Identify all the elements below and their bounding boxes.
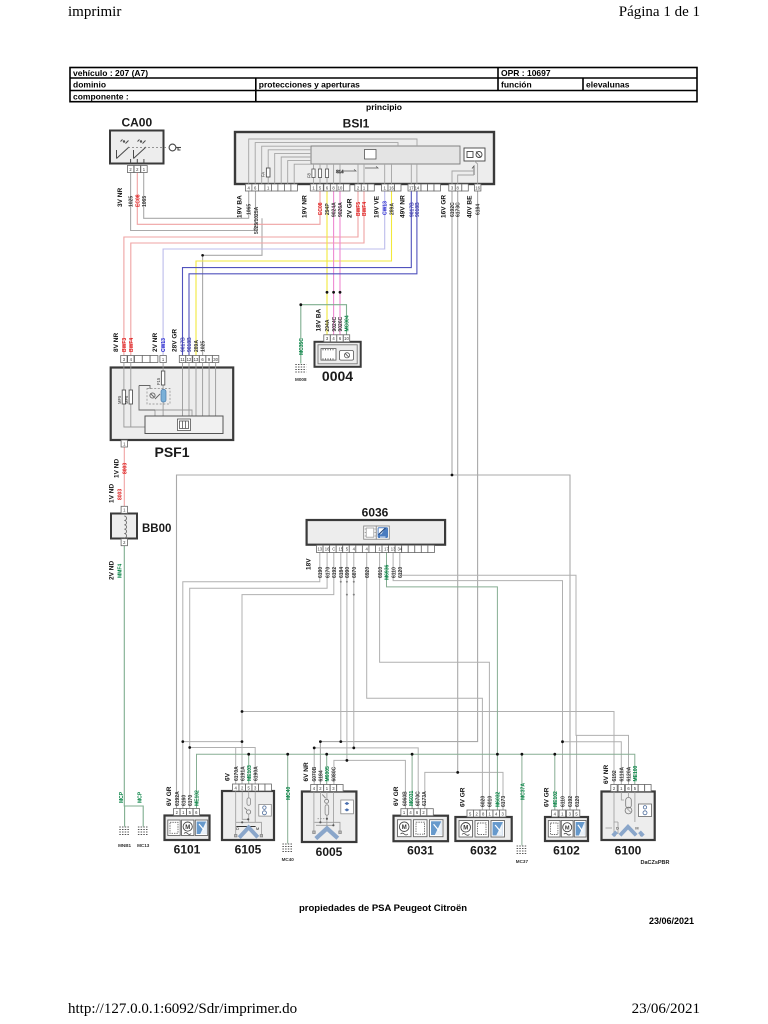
svg-text:6870: 6870 bbox=[352, 567, 358, 578]
6031 door icon bbox=[414, 820, 428, 837]
node 6070B bbox=[313, 747, 316, 750]
svg-text:M: M bbox=[463, 826, 468, 832]
wire 6110 (gray) 6036 to 6102/6100 bbox=[393, 553, 621, 785]
node 6990 bbox=[346, 759, 349, 762]
ecu BSI1 body bbox=[235, 132, 494, 184]
svg-text:componente :: componente : bbox=[73, 92, 129, 102]
PSF1 blue element bbox=[161, 390, 166, 403]
svg-text:6173C: 6173C bbox=[456, 202, 462, 217]
6005 body bbox=[302, 792, 357, 843]
wire 6192 link to 6100 bbox=[242, 712, 614, 785]
PSF1 relay sub box (dashed) bbox=[147, 389, 170, 405]
fuse F15 bbox=[161, 371, 164, 385]
node 6192/6105 bbox=[241, 740, 244, 743]
svg-text:6032: 6032 bbox=[470, 844, 497, 858]
svg-text:ME103: ME103 bbox=[247, 765, 253, 781]
6031 window icon bbox=[430, 820, 444, 837]
svg-text:F8: F8 bbox=[307, 172, 312, 178]
svg-text:9018B: 9018B bbox=[415, 202, 421, 217]
6102 pins 4,1,3,5 bbox=[552, 810, 580, 817]
wire 6170 stub to 6101 pin5 bbox=[189, 748, 191, 809]
wire 6990 (gray) 6036 to 6005/6031 bbox=[346, 553, 348, 761]
svg-text:6192: 6192 bbox=[612, 770, 618, 781]
splice 9024 bbox=[332, 291, 335, 294]
node 6170 bbox=[188, 746, 191, 749]
6100 rocker chevron bbox=[620, 827, 636, 836]
6036 pin numbers bbox=[317, 547, 402, 552]
wire MMF4 (green) BB00 to grounds MNB1/MC13 bbox=[124, 546, 143, 827]
wire 9017B (navy) BSI1 to PSF1 bbox=[183, 191, 412, 356]
6101 pins 2,1,5,6 bbox=[174, 809, 200, 816]
BSI1 connector icon top right bbox=[464, 148, 485, 161]
svg-text:2V ND: 2V ND bbox=[109, 561, 116, 580]
6100 pins 2,1,3,5 bbox=[611, 785, 651, 792]
svg-text:17: 17 bbox=[384, 547, 389, 552]
svg-text:13: 13 bbox=[317, 547, 322, 552]
svg-text:ME102: ME102 bbox=[553, 791, 559, 807]
svg-text:13: 13 bbox=[194, 357, 199, 362]
svg-text:23/06/2021: 23/06/2021 bbox=[649, 916, 694, 926]
node 6192C bus bbox=[451, 474, 454, 477]
svg-text:6101: 6101 bbox=[174, 843, 201, 857]
node 6184/6005 bbox=[319, 740, 322, 743]
node 6110/6102 bbox=[561, 740, 564, 743]
PSF1 body bbox=[111, 368, 234, 441]
svg-text:M: M bbox=[185, 825, 190, 831]
svg-text:ME100: ME100 bbox=[633, 765, 639, 781]
BSI1 pin row: 19V BA group bbox=[245, 184, 297, 191]
6102 motor icon bbox=[561, 821, 573, 838]
svg-text:M6031: M6031 bbox=[409, 790, 415, 806]
6105 contact bar bbox=[236, 826, 255, 828]
svg-text:6020: 6020 bbox=[481, 796, 487, 807]
svg-text:6V GR: 6V GR bbox=[459, 787, 466, 807]
svg-text:13: 13 bbox=[391, 547, 396, 552]
node 1025/PSF1 bbox=[201, 254, 204, 257]
svg-text:9024C: 9024C bbox=[332, 316, 338, 331]
node 6173C bbox=[456, 771, 459, 774]
svg-text:6990: 6990 bbox=[345, 567, 351, 578]
svg-text:6192: 6192 bbox=[332, 567, 338, 578]
wire 6120 stub to 6102 bbox=[576, 735, 578, 810]
svg-text:6005: 6005 bbox=[316, 845, 343, 859]
svg-text:propiedades de PSA Peugeot Cit: propiedades de PSA Peugeot Citroën bbox=[299, 903, 467, 914]
svg-text:principio: principio bbox=[366, 102, 402, 112]
wire 5025/1025A (gray) BSI1 branch to PSF1 pin 1025 bbox=[203, 219, 262, 356]
wire 6173C (gray) BSI1 down to 6173 link bbox=[457, 191, 459, 772]
svg-text:ME102: ME102 bbox=[195, 790, 201, 806]
wire 9024A/9024C (pink) BSI1 to 0004 bbox=[333, 191, 335, 335]
header table bbox=[70, 68, 697, 102]
svg-text:14: 14 bbox=[415, 185, 420, 190]
PSF1 connector icon bbox=[178, 419, 191, 431]
svg-text:M: M bbox=[565, 825, 570, 831]
PSF1 wire labels bbox=[122, 337, 207, 352]
6102 body bbox=[545, 817, 588, 841]
PSF1 28V GR pins bbox=[179, 356, 218, 363]
svg-text:6190A: 6190A bbox=[253, 766, 259, 781]
svg-text:19V BA: 19V BA bbox=[237, 195, 244, 218]
wire 6920 (gray) 6036 to 6032 pin 6020 bbox=[367, 553, 483, 810]
svg-text:S14: S14 bbox=[336, 169, 344, 174]
svg-text:6170: 6170 bbox=[188, 795, 194, 806]
svg-text:6173: 6173 bbox=[501, 796, 507, 807]
svg-text:0004: 0004 bbox=[322, 368, 353, 384]
0004 right icon bbox=[340, 351, 354, 361]
wire supply bus y=475 (gray) bbox=[177, 475, 571, 810]
svg-text:16: 16 bbox=[475, 185, 480, 190]
svg-text:protecciones y aperturas: protecciones y aperturas bbox=[259, 80, 360, 90]
green tap 6005 M6005 bbox=[326, 754, 328, 784]
BSI1 chip icon bbox=[365, 150, 377, 160]
6036 body bbox=[307, 520, 446, 545]
wire 6110 stub to 6102 bbox=[562, 742, 564, 810]
svg-text:19V NR: 19V NR bbox=[302, 195, 309, 218]
svg-text:M6005: M6005 bbox=[325, 766, 331, 782]
svg-text:30: 30 bbox=[213, 357, 218, 362]
wire 8003 (red) PSF1 bottom pin to BB00 bbox=[123, 448, 125, 507]
svg-text:6036: 6036 bbox=[362, 506, 389, 520]
node 6870 bbox=[352, 747, 355, 750]
wire BWF5 (red) BSI1 to PSF1 pin3 bbox=[124, 191, 358, 356]
svg-text:19V VE: 19V VE bbox=[374, 195, 381, 218]
svg-text:MC37: MC37 bbox=[516, 859, 529, 864]
svg-text:6110A: 6110A bbox=[620, 767, 626, 782]
6036 wire labels bbox=[318, 564, 404, 580]
svg-text:9018B: 9018B bbox=[187, 337, 193, 352]
green tap 6105 ME103 bbox=[248, 754, 250, 784]
svg-text:dominio: dominio bbox=[73, 80, 106, 90]
6102 window icon bbox=[574, 821, 586, 838]
svg-text:17: 17 bbox=[409, 185, 414, 190]
svg-text:49V NR: 49V NR bbox=[400, 195, 407, 218]
BSI1 arrow below connector bbox=[472, 166, 474, 175]
6005 pins 4,2,1,3 bbox=[311, 785, 343, 792]
wire 1065 (gray) CA00 pin1 to BSI1 bbox=[144, 173, 249, 219]
PSF1 pin 1 (2V NR) bbox=[160, 356, 166, 363]
6105 pins 4,2,5,3 bbox=[233, 784, 272, 791]
BB00 coil symbol bbox=[124, 516, 126, 538]
key symbol bbox=[169, 144, 181, 151]
svg-text:6080C: 6080C bbox=[332, 766, 338, 781]
svg-text:MF5: MF5 bbox=[117, 395, 122, 404]
6105 rocker chevron bbox=[239, 827, 258, 837]
svg-text:1065: 1065 bbox=[142, 196, 148, 207]
BB00 top pin bbox=[121, 506, 127, 513]
svg-text:6192: 6192 bbox=[568, 796, 574, 807]
svg-text:CW13: CW13 bbox=[161, 338, 167, 352]
BSI1 pin row: 2V GR group bbox=[355, 184, 368, 191]
svg-text:D: D bbox=[616, 827, 619, 831]
svg-text:16: 16 bbox=[325, 547, 330, 552]
svg-text:elevalunas: elevalunas bbox=[586, 80, 630, 90]
svg-text:BSI1: BSI1 bbox=[343, 117, 370, 131]
node 6192 to 6100 bbox=[241, 710, 244, 713]
BSI1 pin row: 49V NR group bbox=[408, 184, 421, 191]
svg-text:10: 10 bbox=[338, 185, 343, 190]
wire 6184 (gray) BSI1 to 6005 bbox=[320, 191, 477, 785]
svg-text:6173A: 6173A bbox=[422, 791, 428, 806]
svg-text:5025/1025A: 5025/1025A bbox=[254, 206, 260, 234]
fuse MF6 bbox=[129, 390, 132, 404]
6036 window lift icon (blue) bbox=[376, 526, 389, 539]
BSI1 pin row: 19V VE group bbox=[382, 184, 395, 191]
nodes on green bus bbox=[247, 753, 250, 756]
svg-text:MC004: MC004 bbox=[345, 315, 351, 331]
6100 internals bbox=[606, 792, 643, 836]
svg-text:9026A: 9026A bbox=[338, 202, 344, 217]
green tap 6102 ME102 bbox=[554, 754, 556, 810]
svg-text:6184: 6184 bbox=[476, 204, 482, 215]
wire 6170 (gray) 6036 to 6101/6105 bbox=[190, 553, 327, 784]
BSI1 internal arrow S14 bbox=[336, 166, 378, 174]
6032 window icon bbox=[491, 821, 505, 838]
svg-text:6010: 6010 bbox=[488, 796, 494, 807]
svg-text:MC35C: MC35C bbox=[299, 338, 305, 355]
svg-text:D: D bbox=[236, 827, 239, 831]
svg-text:1V ND: 1V ND bbox=[113, 459, 120, 478]
svg-text:6160: 6160 bbox=[182, 795, 188, 806]
6105 internals bbox=[235, 792, 263, 837]
svg-text:8003: 8003 bbox=[118, 489, 124, 500]
svg-text:2V GR: 2V GR bbox=[347, 198, 354, 218]
svg-text:1065: 1065 bbox=[247, 204, 253, 215]
svg-text:8003: 8003 bbox=[123, 463, 129, 474]
CA00 internal switches bbox=[117, 140, 147, 164]
wire 6170A stub to 6105 bbox=[235, 748, 237, 785]
0004 body bbox=[315, 342, 361, 367]
bottom captions bbox=[299, 860, 694, 926]
svg-text:6120: 6120 bbox=[398, 567, 404, 578]
svg-text:FA: FA bbox=[261, 172, 266, 177]
svg-text:16: 16 bbox=[389, 185, 394, 190]
wire CW13 (light blue) BSI1 to PSF1 pin1 bbox=[163, 191, 385, 356]
svg-text:28V GR: 28V GR bbox=[171, 329, 178, 352]
svg-text:6105: 6105 bbox=[235, 843, 262, 857]
green tap ground MC40 bbox=[287, 754, 289, 843]
wire 6990 link 6005 6080C to 6031 6060B bbox=[334, 760, 406, 808]
green tap ground MC37 bbox=[521, 754, 523, 845]
page footer text bbox=[68, 1001, 700, 1017]
wire 1025 (gray) CA00 pin3 to BSI1 bbox=[131, 173, 256, 231]
node 6190 bbox=[181, 740, 184, 743]
svg-text:6031: 6031 bbox=[407, 844, 434, 858]
svg-text:MC37A: MC37A bbox=[520, 783, 526, 800]
svg-text:6060B: 6060B bbox=[402, 791, 408, 806]
wire 6173 link 6031 to 6032 bbox=[425, 772, 503, 810]
svg-text:12: 12 bbox=[187, 357, 192, 362]
svg-text:MCP: MCP bbox=[119, 791, 125, 803]
svg-text:10: 10 bbox=[344, 336, 349, 341]
svg-text:MNB1: MNB1 bbox=[118, 843, 131, 848]
svg-text:15: 15 bbox=[338, 547, 343, 552]
svg-text:9026C: 9026C bbox=[338, 316, 344, 331]
wire BWF4 (red) BSI1 to PSF1 pin4 bbox=[131, 191, 364, 356]
6036 door icon bbox=[364, 526, 377, 539]
svg-text:2V NR: 2V NR bbox=[152, 333, 159, 352]
fuse MF5 bbox=[122, 390, 125, 404]
wire 6184 (gray) from 6036 bbox=[340, 553, 342, 742]
wire 6192 (gray) 6036 to 6105 pin 6191A bbox=[242, 553, 334, 784]
wire M6936 (green) 6036 to ground bus bbox=[387, 553, 498, 755]
CA00 pins 2,2,1 bbox=[127, 166, 147, 173]
svg-text:6V NR: 6V NR bbox=[603, 765, 610, 784]
svg-text:6V GR: 6V GR bbox=[166, 786, 173, 806]
wire 6870 link 6005 6070B to 6031 6070C bbox=[314, 748, 418, 809]
BSI1 pin row: 40V BE pin 16 bbox=[474, 184, 481, 191]
svg-text:EC08: EC08 bbox=[135, 194, 141, 207]
svg-text:6102: 6102 bbox=[553, 844, 580, 858]
svg-text:MMF4: MMF4 bbox=[118, 564, 124, 578]
PSF1 bottom connector box bbox=[145, 416, 223, 434]
wire 6910 (gray) 6036 to 6032 pin 6010 bbox=[380, 553, 490, 810]
node MC35C bbox=[299, 303, 302, 306]
svg-text:6920: 6920 bbox=[365, 567, 371, 578]
BB00 body bbox=[111, 514, 137, 539]
svg-text:BWF3: BWF3 bbox=[122, 338, 128, 352]
svg-text:18V BA: 18V BA bbox=[316, 308, 323, 331]
BSI1 pin row: 16V GR group bbox=[449, 184, 462, 191]
svg-text:CA00: CA00 bbox=[121, 116, 152, 130]
6036 pin row bbox=[317, 545, 435, 552]
svg-text:6100: 6100 bbox=[615, 844, 642, 858]
svg-text:vehículo : 207 (A7): vehículo : 207 (A7) bbox=[73, 68, 148, 78]
svg-text:6V: 6V bbox=[225, 772, 232, 781]
fuse FA bbox=[261, 168, 271, 177]
BSI1 nested feed lines bbox=[249, 139, 478, 184]
6101 door icon bbox=[168, 820, 180, 836]
6032 pins 5,2,8,1,4,3 bbox=[467, 810, 506, 817]
svg-text:MF6: MF6 bbox=[124, 395, 129, 404]
connector CA00 body bbox=[110, 131, 164, 164]
svg-text:9024A: 9024A bbox=[332, 202, 338, 217]
BSI1 pin row: 19V NR group bbox=[310, 184, 343, 191]
PSF1 relay coil bbox=[139, 386, 160, 411]
svg-text:BWF4: BWF4 bbox=[129, 338, 135, 352]
fuses F8 F11 F14 bbox=[312, 169, 329, 178]
BSI1 empty pin boxes middle bbox=[343, 184, 468, 191]
6005 right sub box bbox=[341, 800, 354, 814]
6031 pins 1,4,6,2 bbox=[401, 809, 433, 816]
BB00 bottom pin bbox=[121, 539, 127, 546]
green tap 6032 M6032 bbox=[496, 754, 498, 810]
svg-text:PSF1: PSF1 bbox=[154, 444, 189, 460]
svg-text:6910: 6910 bbox=[378, 567, 384, 578]
wire 6192C (gray) BSI1 down to supply bus bbox=[451, 191, 453, 475]
svg-text:6070B: 6070B bbox=[312, 766, 318, 781]
wire MMF4 branch to MNB1 bbox=[124, 806, 126, 826]
wire 6190 stub to 6101 pin2 bbox=[182, 742, 184, 809]
svg-text:3V NR: 3V NR bbox=[117, 188, 124, 207]
wire EC08 (red) CA00 pin2 to BSI1 bbox=[137, 173, 320, 225]
6100 right sub box bbox=[639, 804, 652, 817]
6032 body bbox=[455, 817, 511, 841]
svg-text:18V: 18V bbox=[306, 558, 313, 570]
svg-text:6192A: 6192A bbox=[175, 791, 181, 806]
svg-text:6110: 6110 bbox=[561, 796, 567, 807]
green tap 6031 M6031 bbox=[411, 754, 413, 809]
6101 motor icon bbox=[182, 820, 194, 836]
crossing marks near 6036 bbox=[340, 581, 342, 583]
svg-text:BWF4: BWF4 bbox=[362, 202, 368, 216]
6105 body bbox=[222, 791, 274, 840]
svg-text:M008: M008 bbox=[295, 377, 307, 382]
svg-text:Página 1 de 1: Página 1 de 1 bbox=[619, 4, 700, 20]
6032 motor icon bbox=[459, 821, 473, 838]
6032 door icon bbox=[475, 821, 489, 838]
PSF1 bottom pin 1 bbox=[121, 440, 127, 447]
svg-text:http://127.0.0.1:6092/Sdr/impr: http://127.0.0.1:6092/Sdr/imprimer.do bbox=[68, 1001, 297, 1017]
svg-text:MC13: MC13 bbox=[137, 843, 150, 848]
6101 window icon bbox=[195, 820, 207, 836]
wire 289A (yellow) BSI1 to PSF1 bbox=[196, 191, 392, 356]
svg-text:6120: 6120 bbox=[575, 796, 581, 807]
6005 internals bbox=[313, 792, 342, 834]
6105 right sub box bbox=[259, 804, 272, 816]
PSF1 top pins 3,4 + empty bbox=[121, 356, 158, 363]
svg-text:294A: 294A bbox=[325, 319, 331, 331]
svg-text:OPR : 10697: OPR : 10697 bbox=[501, 68, 551, 78]
svg-text:6V NR: 6V NR bbox=[303, 762, 310, 781]
wire MC004 (green) 0004 pin10 to ground M008 bbox=[301, 305, 347, 363]
svg-text:6120A: 6120A bbox=[627, 766, 633, 781]
svg-text:1025: 1025 bbox=[201, 341, 207, 352]
svg-text:6070C: 6070C bbox=[415, 791, 421, 806]
svg-text:1V ND: 1V ND bbox=[109, 484, 116, 503]
0004 pins 3,4,6,10 bbox=[324, 335, 350, 342]
ground MNB1 bbox=[118, 791, 131, 848]
svg-text:M: M bbox=[402, 825, 407, 831]
svg-text:6190: 6190 bbox=[318, 567, 324, 578]
wire 294P/294A (yellow) BSI1 to 0004 bbox=[326, 191, 328, 335]
CA00 dashed key line bbox=[128, 147, 168, 149]
BSI1 inner relay box bbox=[311, 146, 460, 164]
svg-text:6191A: 6191A bbox=[240, 766, 246, 781]
0004 chip icon bbox=[321, 349, 336, 361]
6102 door icon bbox=[548, 821, 560, 838]
6101 body bbox=[165, 816, 210, 841]
svg-text:M: M bbox=[635, 827, 638, 831]
ground MC37 bbox=[516, 783, 529, 864]
svg-text:MCP: MCP bbox=[138, 791, 144, 803]
svg-text:289A: 289A bbox=[390, 203, 396, 215]
svg-text:8V NR: 8V NR bbox=[113, 333, 120, 352]
svg-text:M6936: M6936 bbox=[385, 564, 391, 580]
ground M008 bbox=[295, 365, 306, 373]
6031 body bbox=[394, 816, 449, 842]
svg-text:294P: 294P bbox=[325, 203, 331, 215]
svg-text:16V GR: 16V GR bbox=[441, 195, 448, 218]
6005 rocker chevron bbox=[316, 828, 338, 838]
ground MC13 bbox=[137, 791, 150, 848]
svg-text:1025: 1025 bbox=[129, 196, 135, 207]
6100 body bbox=[602, 792, 655, 841]
svg-text:EC08: EC08 bbox=[318, 202, 324, 215]
svg-text:MC40: MC40 bbox=[286, 786, 292, 800]
svg-text:M: M bbox=[256, 827, 259, 831]
wire 6120 (gray) 6036 to 6102/6100 bbox=[400, 553, 629, 785]
wire 6190 (gray) 6036 to 6101/6105 bbox=[183, 553, 320, 742]
node 6184 join bbox=[339, 740, 342, 743]
PSF1 internal wires bbox=[124, 363, 216, 428]
svg-text:MC40: MC40 bbox=[282, 857, 295, 862]
svg-text:40V BE: 40V BE bbox=[467, 195, 474, 218]
svg-text:imprimir: imprimir bbox=[68, 4, 121, 20]
svg-text:función: función bbox=[501, 80, 532, 90]
green ground bus bbox=[197, 754, 635, 808]
svg-text:23/06/2021: 23/06/2021 bbox=[632, 1001, 700, 1017]
svg-text:CW13: CW13 bbox=[383, 201, 389, 215]
